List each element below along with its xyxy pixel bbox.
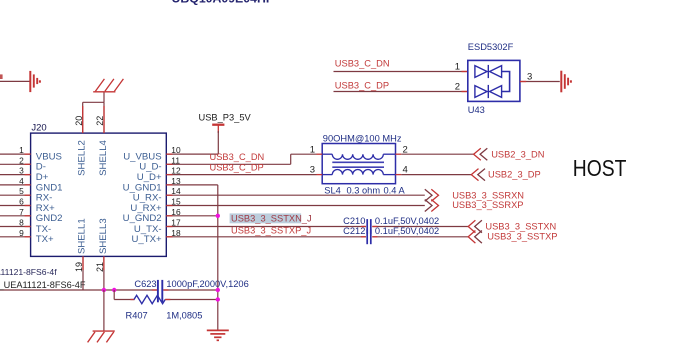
wire pin SSTX left C210 — [166, 226, 366, 228]
svg-text:3: 3 — [310, 165, 315, 176]
svg-text:USB3_C_DN: USB3_C_DN — [335, 59, 390, 69]
svg-text:USB3_3_SSTXN_J: USB3_3_SSTXN_J — [231, 214, 312, 224]
junction gnd bus top — [216, 288, 220, 292]
capacitor C623 — [157, 280, 159, 302]
pin 20 wire SHELL2 — [82, 102, 84, 133]
wire U43 pin2 USB3_C_DP — [334, 91, 468, 93]
wire to chassis ground top — [103, 92, 105, 103]
net label highlight — [230, 213, 302, 223]
wire pin13 U_GND1 — [166, 184, 218, 186]
off-page connector USB3_3_SSTXN — [468, 220, 475, 233]
pin 21 wire SHELL3 — [103, 256, 105, 290]
off-page connector USB3_3_SSTXP — [468, 231, 475, 244]
wire pin SSTX left C212 — [166, 236, 366, 238]
svg-text:SHELL2: SHELL2 — [77, 140, 88, 176]
svg-text:HOST: HOST — [573, 157, 627, 182]
wire U43 pin3 — [520, 81, 560, 83]
svg-text:UBQ10A09E04HF: UBQ10A09E04HF — [172, 0, 274, 6]
svg-text:3: 3 — [527, 71, 532, 82]
svg-text:22: 22 — [95, 116, 105, 126]
svg-text:J20: J20 — [31, 122, 46, 133]
capacitor C210 — [366, 219, 368, 234]
stub SL4 pins — [317, 153, 323, 155]
svg-text:SHELL4: SHELL4 — [98, 139, 109, 175]
off-page connector USB3_3_SSRXP — [425, 200, 432, 212]
svg-text:A11121-8FS6-4f: A11121-8FS6-4f — [0, 267, 57, 277]
svg-text:C210: C210 — [343, 216, 365, 226]
svg-text:4: 4 — [403, 165, 408, 176]
wire pin7 GND2 — [0, 215, 31, 217]
svg-text:GND2: GND2 — [36, 213, 63, 224]
wire pin11 USB3_C_DN — [166, 163, 290, 165]
wire pin15 USB3_3_SSRXP — [166, 205, 425, 207]
svg-text:1: 1 — [19, 145, 24, 155]
stub C623 — [152, 289, 157, 291]
svg-text:U_GND2: U_GND2 — [123, 213, 162, 224]
svg-text:USB_P3_5V: USB_P3_5V — [199, 112, 252, 122]
common-mode choke SL4 — [322, 144, 395, 184]
svg-text:USB3_3_SSTXP: USB3_3_SSTXP — [487, 232, 557, 242]
svg-text:0.1uF,50V,0402: 0.1uF,50V,0402 — [375, 216, 439, 226]
svg-text:0.1uF,50V,0402: 0.1uF,50V,0402 — [375, 226, 439, 236]
svg-text:7: 7 — [19, 207, 24, 217]
connector J20 — [31, 133, 167, 256]
wire pin5 RX- — [0, 194, 31, 196]
svg-text:C623: C623 — [134, 279, 156, 289]
svg-text:3: 3 — [19, 166, 24, 176]
svg-text:4: 4 — [19, 176, 24, 186]
wire pin1 VBUS — [0, 153, 31, 155]
svg-text:USB3_3_SSTXN: USB3_3_SSTXN — [485, 222, 556, 232]
svg-text:SHELL1: SHELL1 — [77, 218, 88, 254]
svg-text:_UEA11121-8FS6-4F: _UEA11121-8FS6-4F — [0, 280, 86, 290]
wire pin8 TX- — [0, 226, 31, 228]
svg-text:U43: U43 — [468, 105, 485, 115]
wire gnd horizontal — [0, 289, 157, 291]
wire pin4 GND1 — [0, 184, 31, 186]
wire R407 right — [165, 299, 218, 301]
wire USB2_3_DP — [401, 174, 471, 176]
wire pin16 U_GND2 — [166, 215, 218, 217]
ESD protection diode U43 — [468, 60, 520, 101]
ground GND right of U43 — [560, 71, 562, 93]
svg-text:USB2_3_DN: USB2_3_DN — [491, 150, 544, 160]
pin 19 wire SHELL1 — [82, 256, 84, 290]
wire pin6 RX+ — [0, 205, 31, 207]
wire C212 right — [372, 236, 468, 238]
wire C210 right — [372, 226, 468, 228]
wire gnd vertical — [217, 185, 219, 330]
svg-text:U_TX+: U_TX+ — [131, 234, 162, 245]
svg-text:1: 1 — [455, 62, 460, 73]
wire pin14 USB3_3_SSRXN — [166, 194, 425, 196]
wire pin3 D+ — [0, 174, 31, 176]
svg-text:USB3_C_DN: USB3_C_DN — [210, 152, 265, 162]
chassis ground top — [93, 91, 115, 93]
junction gnd bus bottom — [216, 297, 220, 301]
pin 22 wire SHELL4 — [103, 102, 105, 133]
svg-text:TX+: TX+ — [36, 234, 54, 245]
svg-text:20: 20 — [74, 116, 84, 126]
svg-text:21: 21 — [95, 262, 105, 272]
capacitor C212 — [366, 229, 368, 244]
svg-text:8: 8 — [19, 218, 24, 228]
svg-text:ESD5302F: ESD5302F — [468, 42, 514, 52]
svg-text:0.4 A: 0.4 A — [384, 186, 406, 196]
off-page connector USB2_3_DN — [474, 148, 481, 160]
wire pin10 to 5V — [166, 153, 218, 155]
ground GND top-left — [29, 71, 31, 92]
net fragment left edge — [0, 74, 3, 79]
svg-text:1000pF,2000V,1206: 1000pF,2000V,1206 — [166, 279, 248, 289]
svg-text:2: 2 — [455, 82, 460, 93]
svg-text:9: 9 — [19, 228, 24, 238]
svg-text:SL4: SL4 — [324, 186, 341, 196]
svg-text:R407: R407 — [126, 311, 148, 321]
svg-text:90OHM@100 MHz: 90OHM@100 MHz — [323, 133, 402, 143]
svg-text:1: 1 — [310, 145, 315, 156]
wire U43 pin1 USB3_C_DN — [334, 71, 468, 73]
svg-text:2: 2 — [19, 155, 24, 165]
off-page connector USB3_3_SSRXN — [425, 189, 432, 201]
wire R407 branch — [113, 290, 115, 300]
wire shell bracket top — [83, 101, 104, 103]
svg-text:6: 6 — [19, 197, 24, 207]
svg-text:C212: C212 — [343, 226, 365, 236]
svg-text:SHELL3: SHELL3 — [98, 218, 109, 254]
svg-text:5: 5 — [19, 186, 24, 196]
svg-text:USB2_3_DP: USB2_3_DP — [488, 170, 541, 180]
resistor R407 — [134, 295, 165, 303]
svg-text:1M,0805: 1M,0805 — [166, 311, 202, 321]
wire to chassis ground bottom — [103, 290, 105, 331]
svg-text:USB3_C_DP: USB3_C_DP — [210, 163, 264, 173]
off-page connector USB2_3_DP — [471, 169, 478, 181]
junction pin21 gnd — [102, 288, 106, 292]
wire pin9 TX+ — [0, 236, 31, 238]
ground GND earth bottom — [207, 329, 229, 331]
power symbol USB_P3_5V — [212, 124, 224, 126]
junction pin16 — [216, 214, 220, 218]
svg-text:USB3_3_SSRXP: USB3_3_SSRXP — [452, 200, 523, 210]
junction R407 tap — [112, 288, 116, 292]
wire to left ground — [0, 80, 30, 82]
wire pin12 USB3_C_DP — [166, 174, 316, 176]
wire USB2_3_DN — [401, 153, 473, 155]
chassis ground bottom — [93, 330, 115, 332]
svg-text:0.3 ohm: 0.3 ohm — [347, 186, 381, 196]
svg-text:19: 19 — [74, 262, 84, 272]
wire pin2 D- — [0, 163, 31, 165]
svg-text:USB3_C_DP: USB3_C_DP — [335, 81, 389, 91]
